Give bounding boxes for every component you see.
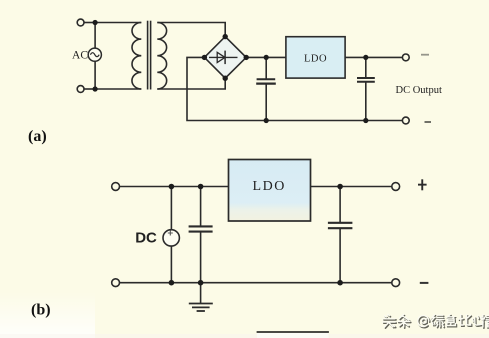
svg-text:LDO: LDO (253, 179, 286, 194)
svg-text:(b): (b) (31, 302, 51, 319)
svg-text:LDO: LDO (304, 54, 327, 65)
svg-text:DC Output: DC Output (396, 85, 442, 96)
svg-text:DC: DC (135, 230, 157, 247)
svg-text:(a): (a) (28, 128, 47, 145)
svg-text:AC: AC (72, 50, 88, 62)
